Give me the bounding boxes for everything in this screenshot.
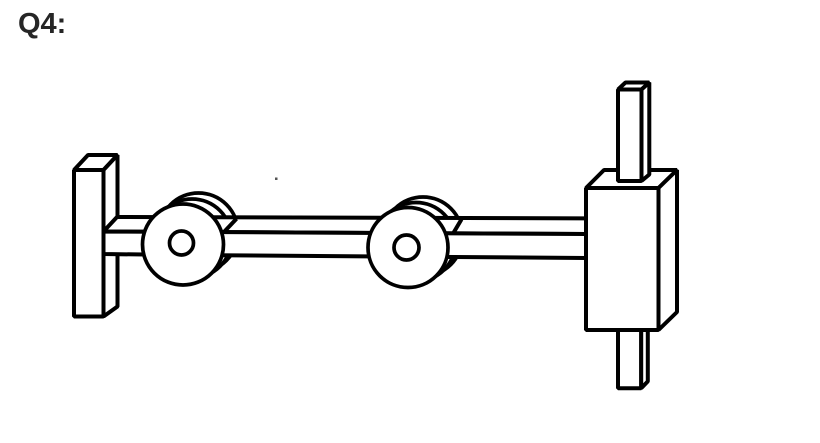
- shaft emergence edge at pulley P1 right: [224, 219, 237, 233]
- bottom rod front face: [618, 322, 641, 388]
- pulley P2 back outer disc: [384, 197, 463, 276]
- pulley P2 center hole: [394, 235, 419, 260]
- bottom rod right face: [641, 315, 648, 388]
- stray dot mark: [275, 178, 278, 181]
- left bracket plate top face: [74, 155, 118, 170]
- pulley P1 front disc: [143, 204, 224, 285]
- question label Q4:: [18, 8, 66, 41]
- shaft bar front face: [104, 232, 587, 259]
- shaft emergence edge at pulley P2 right: [454, 219, 462, 233]
- pulley P1 back middle disc: [153, 199, 232, 278]
- left bracket plate front face: [74, 170, 104, 317]
- top rod top face: [618, 83, 649, 90]
- top rod right face: [642, 83, 650, 182]
- pulley P1 back outer disc: [159, 193, 238, 272]
- pulley P1 center hole: [170, 231, 194, 255]
- left bracket plate right face: [104, 155, 118, 317]
- pulley P2 back middle disc: [377, 203, 456, 282]
- shaft bar top face: [104, 217, 587, 234]
- block top face: [586, 170, 677, 188]
- block front face: [586, 188, 659, 330]
- top rod front face: [618, 90, 642, 182]
- pulley P2 front disc: [368, 208, 448, 288]
- block right face: [659, 170, 678, 330]
